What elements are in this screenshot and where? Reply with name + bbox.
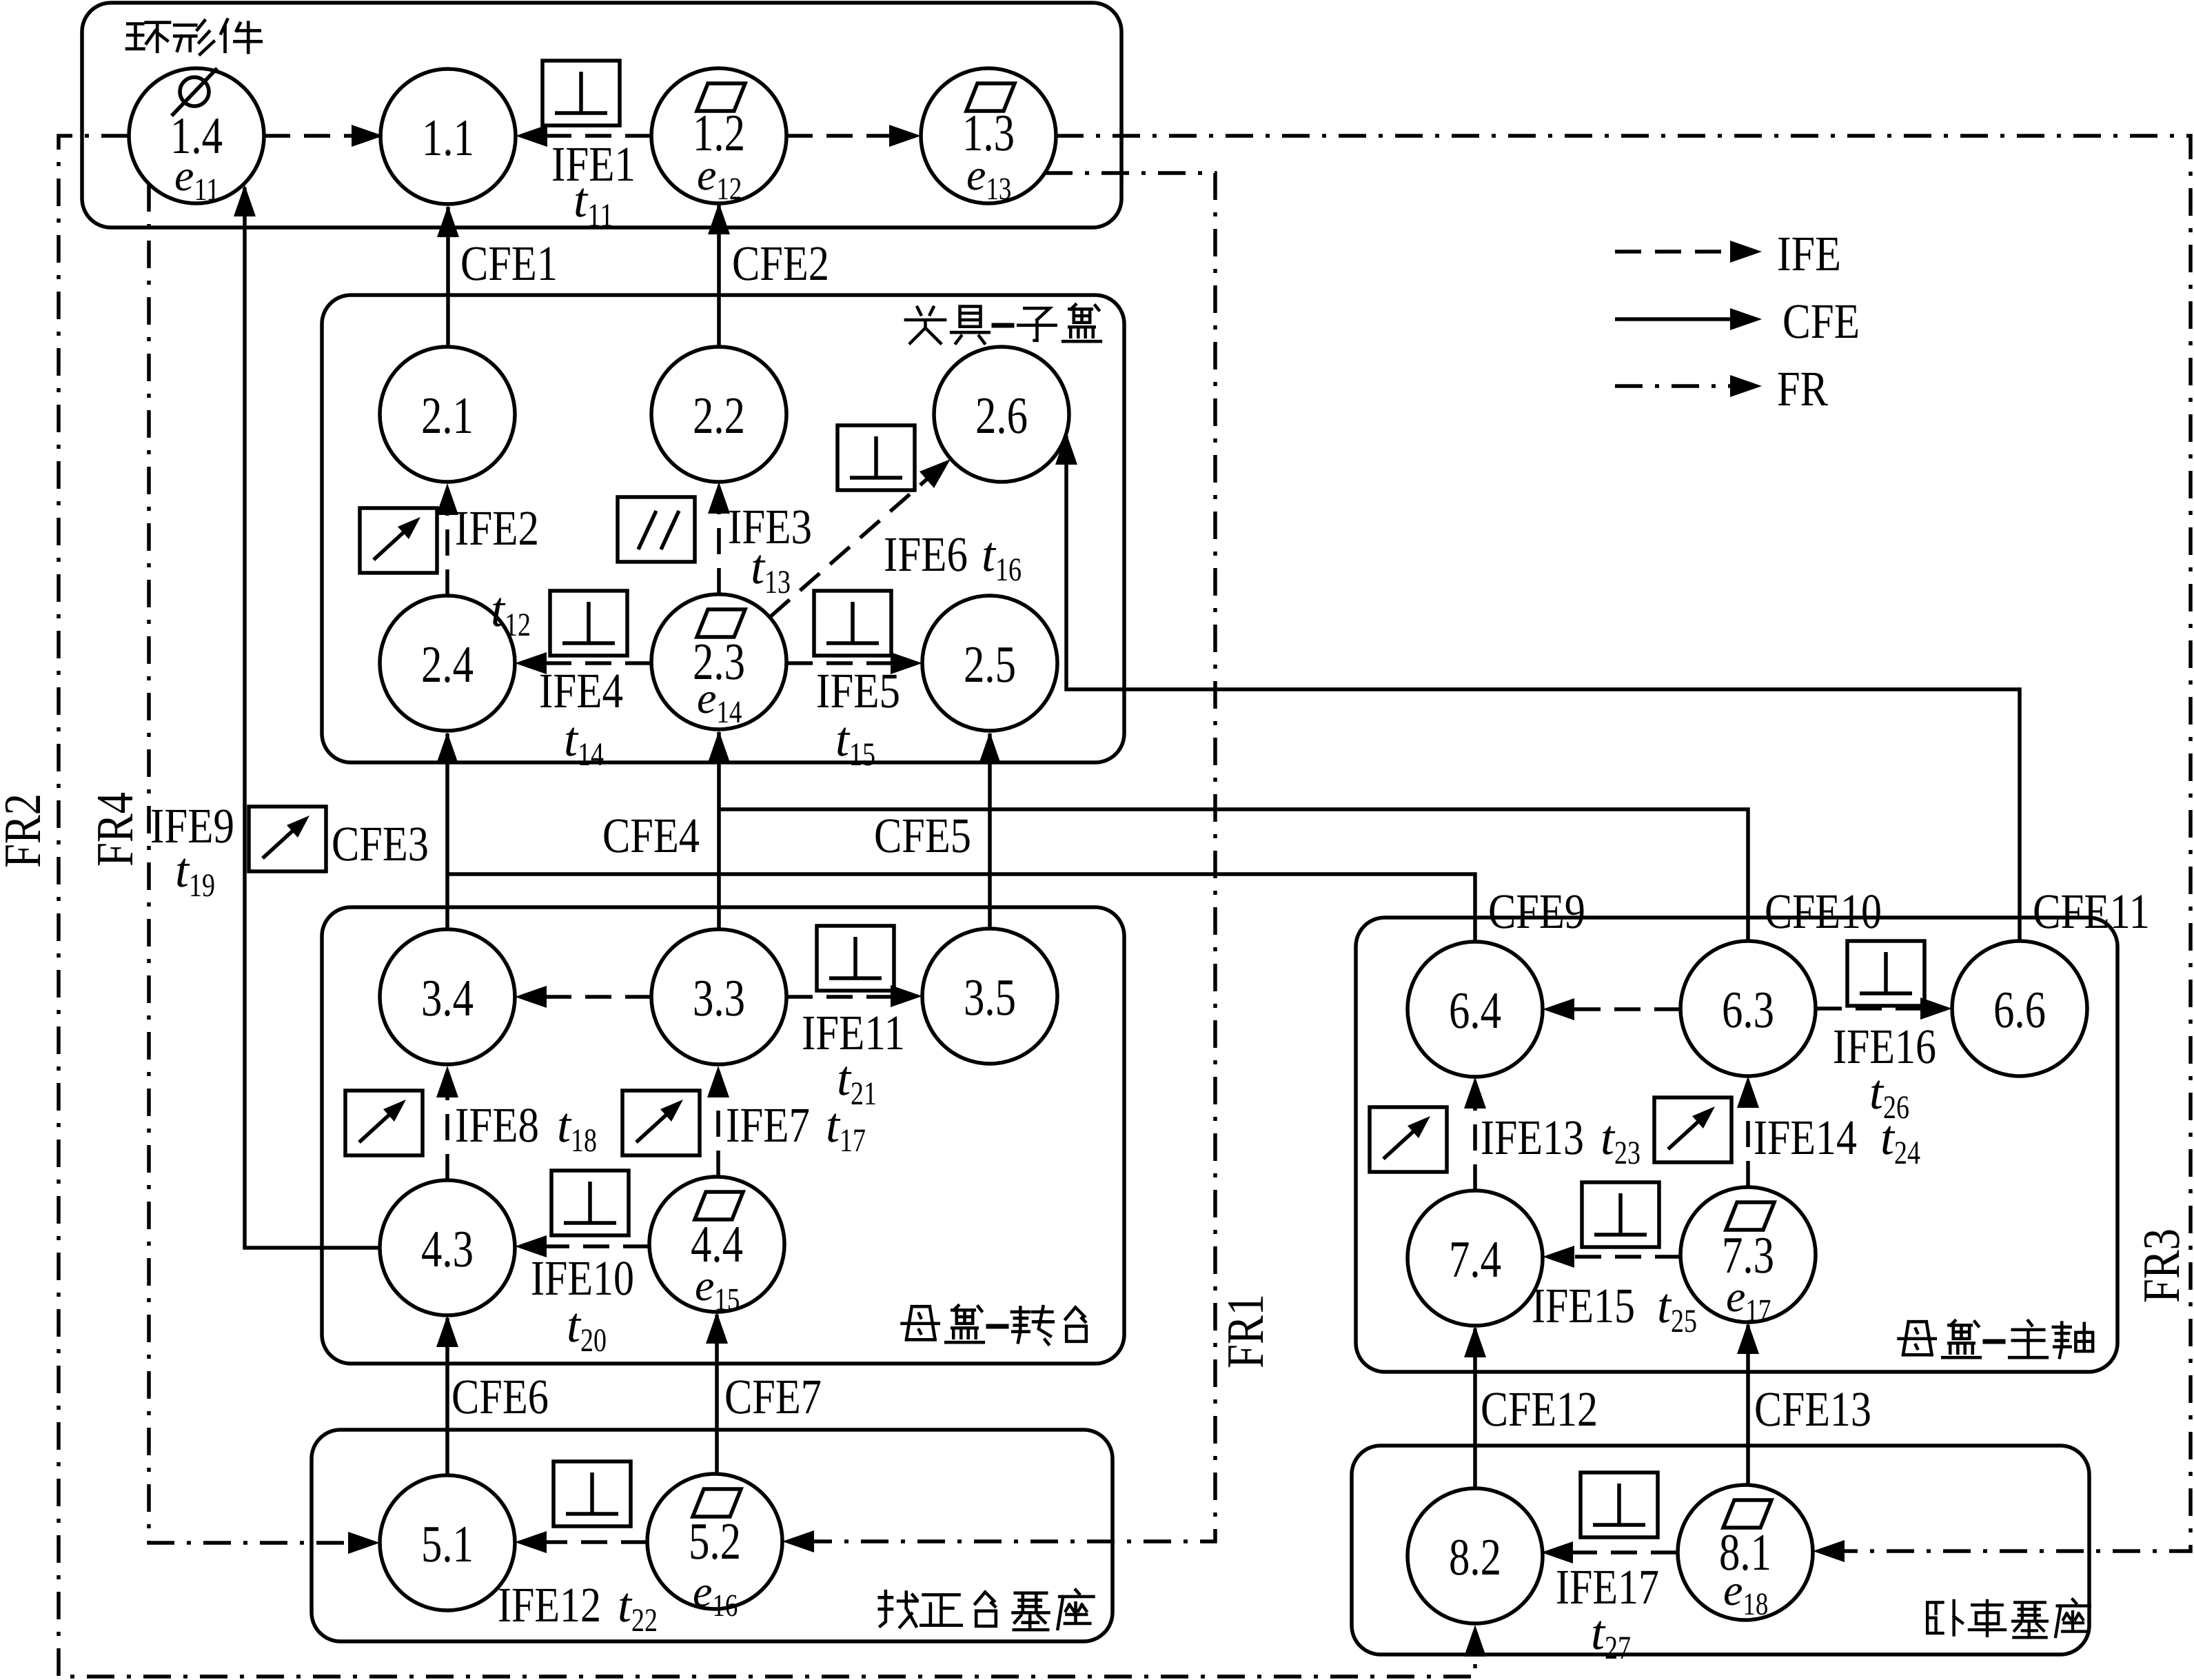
svg-text:FR3: FR3 — [2133, 1228, 2191, 1303]
svg-text:CFE1: CFE1 — [460, 236, 558, 291]
svg-text:CFE2: CFE2 — [732, 236, 829, 291]
svg-text:CFE5: CFE5 — [874, 808, 971, 863]
svg-text:IFE6: IFE6 — [884, 527, 968, 582]
svg-text:5.1: 5.1 — [421, 1515, 474, 1573]
svg-text:CFE10: CFE10 — [1765, 884, 1882, 939]
svg-text:3.5: 3.5 — [964, 969, 1016, 1026]
svg-text:6.6: 6.6 — [1993, 981, 2046, 1039]
svg-text:FR: FR — [1777, 361, 1828, 416]
svg-text:2.2: 2.2 — [693, 387, 745, 445]
svg-text:1.1: 1.1 — [422, 109, 474, 167]
svg-text:6.4: 6.4 — [1449, 982, 1501, 1040]
svg-text:IFE: IFE — [1777, 226, 1841, 281]
svg-text:IFE17: IFE17 — [1556, 1559, 1659, 1615]
svg-text:CFE6: CFE6 — [451, 1369, 549, 1424]
svg-text:FR4: FR4 — [86, 792, 144, 867]
svg-text:2.1: 2.1 — [421, 387, 474, 445]
svg-text:5.2: 5.2 — [689, 1512, 741, 1570]
svg-text:IFE14: IFE14 — [1754, 1110, 1857, 1165]
svg-text:IFE9: IFE9 — [150, 798, 234, 853]
svg-text:IFE10: IFE10 — [531, 1251, 634, 1306]
svg-text:CFE9: CFE9 — [1488, 884, 1585, 939]
svg-text:IFE11: IFE11 — [802, 1005, 905, 1060]
svg-text:CFE13: CFE13 — [1754, 1382, 1871, 1437]
svg-text:IFE15: IFE15 — [1532, 1278, 1635, 1333]
svg-text:IFE3: IFE3 — [728, 499, 812, 554]
svg-text:CFE3: CFE3 — [332, 816, 429, 871]
svg-text:CFE12: CFE12 — [1481, 1382, 1598, 1437]
svg-text:8.2: 8.2 — [1449, 1528, 1501, 1586]
svg-text:7.4: 7.4 — [1449, 1231, 1501, 1288]
svg-text:2.5: 2.5 — [964, 636, 1016, 694]
svg-text:CFE11: CFE11 — [2033, 884, 2150, 939]
svg-text:4.3: 4.3 — [421, 1220, 474, 1278]
svg-text:2.6: 2.6 — [975, 387, 1028, 445]
svg-text:IFE8: IFE8 — [455, 1097, 539, 1153]
svg-text:CFE4: CFE4 — [602, 808, 700, 863]
svg-text:IFE5: IFE5 — [816, 663, 900, 718]
svg-text:FR2: FR2 — [0, 793, 52, 868]
svg-text:FR1: FR1 — [1217, 1294, 1274, 1368]
svg-text:IFE7: IFE7 — [726, 1097, 810, 1153]
svg-text:3.4: 3.4 — [421, 969, 474, 1027]
svg-text:CFE7: CFE7 — [724, 1369, 822, 1424]
svg-text:IFE2: IFE2 — [455, 500, 539, 556]
svg-text:IFE12: IFE12 — [498, 1577, 601, 1632]
svg-text:IFE13: IFE13 — [1481, 1110, 1584, 1165]
svg-text:IFE16: IFE16 — [1833, 1019, 1936, 1074]
svg-text:CFE: CFE — [1782, 294, 1860, 349]
svg-text:IFE4: IFE4 — [539, 663, 623, 718]
svg-text:6.3: 6.3 — [1722, 981, 1774, 1039]
svg-text:3.3: 3.3 — [693, 969, 745, 1027]
svg-text:IFE1: IFE1 — [551, 136, 636, 192]
svg-text:2.4: 2.4 — [421, 636, 474, 694]
